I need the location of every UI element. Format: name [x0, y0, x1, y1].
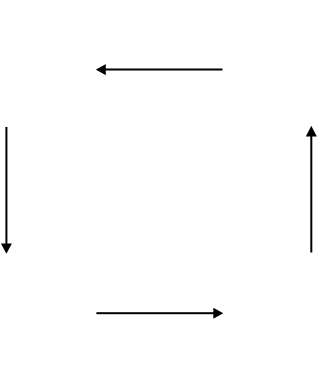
- top arrow (pointing left): [96, 64, 223, 75]
- bottom arrow (pointing right): [96, 308, 223, 319]
- right arrow (pointing up): [306, 126, 317, 253]
- left arrow (pointing down): [1, 127, 12, 254]
